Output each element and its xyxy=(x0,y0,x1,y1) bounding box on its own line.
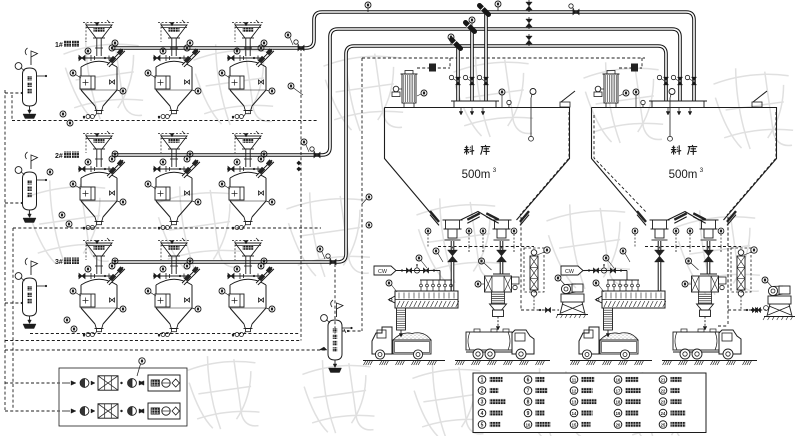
svg-text:10: 10 xyxy=(526,422,531,427)
svg-text:23: 23 xyxy=(661,399,666,404)
svg-text:19: 19 xyxy=(616,411,621,416)
svg-text:CW: CW xyxy=(565,269,575,275)
svg-text:9: 9 xyxy=(527,411,530,417)
svg-text:5: 5 xyxy=(481,422,484,428)
svg-text:24: 24 xyxy=(661,411,666,416)
svg-text:3#: 3# xyxy=(55,259,63,266)
svg-text:6: 6 xyxy=(527,377,530,383)
svg-text:25: 25 xyxy=(661,422,666,427)
svg-text:18: 18 xyxy=(616,399,621,404)
svg-text:20: 20 xyxy=(616,422,621,427)
svg-text:2: 2 xyxy=(481,388,484,394)
svg-text:3: 3 xyxy=(700,167,704,174)
svg-text:16: 16 xyxy=(616,377,621,382)
svg-text:500m: 500m xyxy=(669,169,698,181)
svg-text:14: 14 xyxy=(572,411,577,416)
svg-text:22: 22 xyxy=(661,388,666,393)
svg-text:1#: 1# xyxy=(55,42,63,49)
svg-text:CW: CW xyxy=(378,269,388,275)
svg-text:7: 7 xyxy=(527,388,530,394)
svg-text:3: 3 xyxy=(481,399,484,405)
svg-text:21: 21 xyxy=(661,377,666,382)
svg-text:4: 4 xyxy=(481,411,484,417)
svg-text:500m: 500m xyxy=(462,169,491,181)
svg-text:11: 11 xyxy=(572,377,577,382)
svg-text:13: 13 xyxy=(572,399,577,404)
svg-text:3: 3 xyxy=(493,167,497,174)
svg-text:12: 12 xyxy=(572,388,577,393)
svg-text:8: 8 xyxy=(527,399,530,405)
svg-text:15: 15 xyxy=(572,422,577,427)
svg-text:2#: 2# xyxy=(55,153,63,160)
svg-text:1: 1 xyxy=(481,377,484,383)
svg-text:17: 17 xyxy=(616,388,621,393)
